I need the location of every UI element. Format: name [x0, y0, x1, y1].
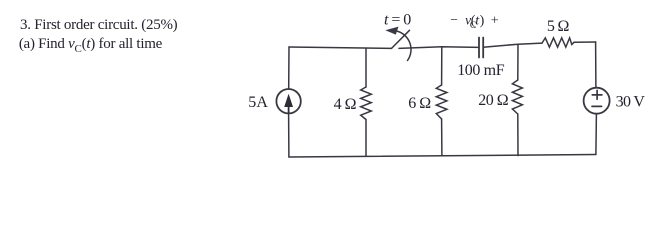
wire left vertical top (node top-left to 5A source): [288, 47, 290, 89]
svg-text:4 Ω: 4 Ω: [334, 96, 357, 113]
switch blade (t=0): [392, 30, 410, 48]
wire 4-ohm branch bottom leg: [365, 120, 367, 156]
problem statement text: [20, 16, 177, 60]
voltage source minus sign: [592, 105, 602, 107]
current source I1 circle (5 A): [276, 89, 300, 113]
svg-text:30 V: 30 V: [616, 93, 646, 110]
svg-text:): ): [480, 14, 485, 29]
resistor R 4-ohm zigzag: [361, 87, 372, 120]
voltage source V1 circle (30 V): [584, 88, 610, 114]
wire top rail segment A (left corner to switch): [289, 47, 392, 48]
resistor R 5-ohm zigzag (horizontal, top right): [542, 38, 574, 47]
wire right vertical top (corner to 30V source): [595, 42, 597, 88]
switch arrow head: [385, 27, 398, 35]
wire 6-ohm branch top leg: [441, 47, 443, 85]
capacitor C right plate: [482, 38, 484, 58]
capacitor C left plate (100 mF): [478, 38, 480, 58]
svg-text:100 mF: 100 mF: [457, 62, 505, 79]
wire 4-ohm branch top leg: [365, 48, 367, 87]
wire top rail segment C (capacitor to 5-ohm): [483, 43, 542, 47]
svg-text:A: A: [256, 94, 268, 111]
switch arc arrow: [397, 31, 412, 61]
current source arrow (up): [288, 104, 290, 113]
wire 20-ohm branch bottom leg: [517, 114, 519, 156]
voltage source plus sign: [592, 94, 602, 96]
resistor R 6-ohm zigzag: [436, 85, 447, 119]
wire right vertical bottom (30V source to bottom rail): [595, 114, 598, 155]
wire 6-ohm branch bottom leg: [441, 119, 443, 156]
wire 20-ohm branch top leg: [517, 44, 519, 80]
svg-text:+: +: [491, 13, 499, 28]
svg-text:−: −: [450, 12, 458, 27]
wire top rail segment B (switch to capacitor): [399, 47, 479, 49]
wire left vertical bottom (5A source to bottom rail): [288, 113, 290, 157]
resistor R 20-ohm zigzag: [512, 80, 522, 114]
svg-text:5: 5: [248, 94, 256, 111]
wire bottom rail: [289, 155, 596, 158]
svg-text:5 Ω: 5 Ω: [547, 18, 570, 35]
wire top rail segment D (5-ohm to right corner): [574, 41, 596, 43]
svg-text:t = 0: t = 0: [384, 12, 411, 29]
svg-text:6 Ω: 6 Ω: [408, 95, 431, 112]
svg-text:20 Ω: 20 Ω: [478, 92, 509, 109]
